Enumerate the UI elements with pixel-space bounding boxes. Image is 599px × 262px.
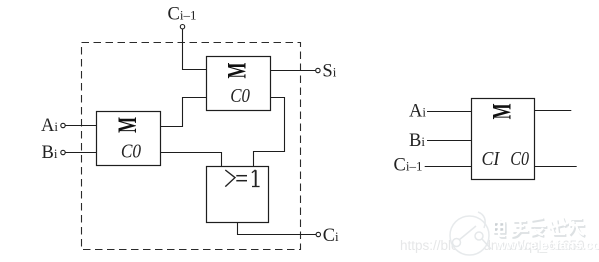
watermark chinese text white top <box>493 217 584 236</box>
label Ci-1 top <box>168 5 197 25</box>
wire HA2 sum output to Si <box>271 70 316 72</box>
wire or gate output to Ci <box>238 223 317 235</box>
or gate label >=1 <box>225 170 259 187</box>
label Ai left <box>41 116 58 136</box>
svg-text:Ci–1: Ci–1 <box>394 156 423 176</box>
watermark chinese text dian (shadow) <box>494 219 585 238</box>
wire Bi input right diagram <box>427 140 472 142</box>
terminal Ai <box>61 123 65 127</box>
right block CI CO label <box>482 148 530 170</box>
watermark url text blog csdn <box>400 238 585 253</box>
wire HA1 sum output to HA2 input <box>161 98 207 127</box>
svg-text:Ai: Ai <box>409 102 426 122</box>
svg-text:Ci–1: Ci–1 <box>168 5 197 25</box>
svg-text:C0: C0 <box>230 85 250 107</box>
svg-text:Ai: Ai <box>41 116 58 136</box>
wire Ai input to HA1 <box>65 125 96 127</box>
label Bi right diagram <box>409 131 425 151</box>
wire HA1 CO output to or gate <box>161 153 222 167</box>
svg-text:Bi: Bi <box>409 131 425 151</box>
label Si <box>322 61 336 81</box>
half adder HA2 box <box>207 57 271 111</box>
dashed boundary of full adder <box>82 43 301 250</box>
svg-text:M: M <box>112 117 142 133</box>
svg-text:www.elecfans.com: www.elecfans.com <box>495 237 599 252</box>
full adder block (right diagram) <box>472 99 535 180</box>
wire Ci-1 input right diagram <box>425 166 472 168</box>
label Bi left <box>42 143 58 163</box>
watermark logo circuit traces <box>453 226 492 249</box>
wire HA2 CO output to or gate <box>254 98 285 167</box>
svg-text:M: M <box>487 103 517 119</box>
terminal Ci <box>316 232 320 236</box>
terminal Si <box>316 68 320 72</box>
wire Bi input to HA1 <box>65 152 96 154</box>
terminal Ci-1 <box>180 25 184 29</box>
terminal Bi <box>61 150 65 154</box>
label Ci-1 right diagram <box>394 156 423 176</box>
wire sum output right diagram <box>535 110 572 112</box>
svg-text:Si: Si <box>322 61 336 81</box>
svg-text:M: M <box>222 62 252 78</box>
or gate box <box>207 167 269 223</box>
svg-text:Bi: Bi <box>42 143 58 163</box>
right block sum symbol (rotated M) <box>487 103 517 119</box>
half adder HA1 box <box>97 112 161 166</box>
HA2 sum symbol (rotated M) <box>222 62 252 78</box>
label Ai right diagram <box>409 102 426 122</box>
wire Ai input right diagram <box>427 111 472 113</box>
watermark dot holes of dian <box>495 223 503 230</box>
watermark www.elecfans.com text <box>495 237 599 253</box>
HA1 sum symbol (rotated M) <box>112 117 142 133</box>
HA2 CO label <box>230 85 250 107</box>
wire carry output right diagram <box>535 166 577 168</box>
svg-text:C0: C0 <box>510 148 529 170</box>
watermark logo circle <box>450 212 489 255</box>
svg-text:Ci: Ci <box>323 226 339 246</box>
wire Ci-1 input to HA2 <box>183 29 207 70</box>
label Ci <box>323 226 339 246</box>
svg-text:C0: C0 <box>121 141 141 163</box>
svg-text:CI: CI <box>482 148 501 170</box>
HA1 CO label <box>121 141 141 163</box>
